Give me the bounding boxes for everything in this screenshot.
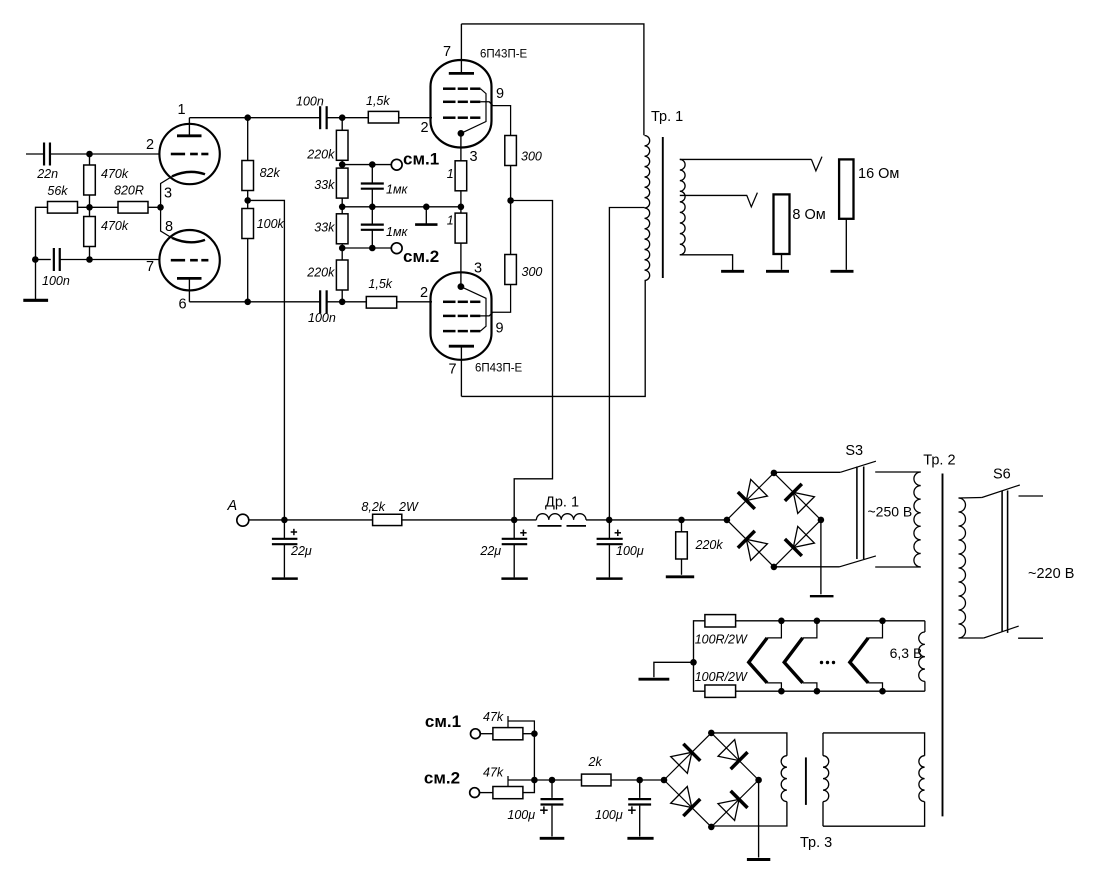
svg-text:100μ: 100μ (595, 808, 623, 822)
ground heater ground (639, 678, 670, 681)
label 33k upper (314, 178, 335, 192)
switch S6 blade bottom (984, 626, 1019, 638)
svg-text:100μ: 100μ (616, 544, 644, 558)
label 100u main (616, 544, 644, 558)
label pin 7 V3 (449, 362, 457, 378)
ground input ground (23, 299, 48, 302)
wire 22u2 top lead (513, 520, 515, 539)
switch S6 blade top (982, 485, 1020, 498)
wire sec common (680, 255, 733, 270)
ground 100u ground (596, 577, 622, 580)
node cm1 out node (531, 730, 538, 737)
label 100n top (296, 95, 324, 109)
svg-text:82k: 82k (260, 166, 281, 180)
svg-text:2: 2 (421, 120, 429, 136)
resistor R 8 Ohm speaker (774, 194, 790, 254)
Tp1 core (662, 137, 664, 278)
label S6 (993, 467, 1011, 483)
label cm.1 (403, 150, 439, 169)
switch S3 blade bottom (840, 556, 876, 567)
wire feedback to grid2 (60, 259, 160, 261)
node cm1 node (339, 161, 346, 168)
resistor R 47k pot upper (493, 728, 523, 740)
svg-text:100n: 100n (42, 274, 70, 288)
wire 22u2 bottom lead (513, 544, 515, 577)
label pin 8 (165, 219, 173, 235)
wire bottom plate rail (461, 281, 645, 396)
ground bias cap2 ground (627, 837, 653, 840)
pentode V2 6P43P-E upper (431, 60, 492, 148)
wire 82k bottom (247, 191, 249, 209)
wire heater lead bottom 2 (803, 683, 817, 691)
label S3 (845, 443, 863, 459)
Tp2 heater winding (919, 621, 925, 691)
svg-text:S3: S3 (845, 443, 863, 459)
wire heater top rail (736, 620, 925, 622)
ground 220k ground (666, 575, 694, 578)
label 16 Om (858, 166, 899, 182)
label 8,2k (361, 500, 385, 514)
capacitor C 100u main (597, 530, 623, 545)
diode D8 bias lower-right (711, 780, 758, 827)
wire 220k bleeder top (681, 520, 683, 532)
label 33k lower (314, 221, 335, 235)
tap arrow 16 (811, 157, 822, 171)
node bias bridge bottom (708, 824, 715, 831)
label 100n fb (42, 274, 70, 288)
wire bias bridge gnd (758, 780, 760, 858)
node heater gnd node (690, 659, 697, 666)
label 220k lower (306, 266, 335, 280)
resistor R 2k (582, 774, 612, 786)
node bias row node1 (531, 777, 538, 784)
wire 470k lower top lead (89, 207, 91, 216)
plate V2 (449, 72, 474, 75)
resistor R 470k lower (84, 217, 96, 247)
wire cap1mk2 top lead (371, 207, 373, 225)
wire cathode1 lead (161, 177, 172, 208)
svg-text:Тр. 2: Тр. 2 (923, 453, 955, 469)
Tp3 secondary winding (781, 756, 787, 802)
label 820R (114, 184, 144, 198)
label 300 lower (522, 265, 543, 279)
ground bias cap1 ground (540, 837, 565, 840)
wire 100u top lead (608, 520, 610, 539)
switch S3 blade top (840, 461, 876, 472)
terminal cm.1 (391, 159, 402, 170)
terminal cm.2 input (470, 788, 480, 798)
resistor R 33k lower (336, 214, 348, 244)
wire sec 16ohm tap (680, 158, 812, 160)
svg-text:8: 8 (165, 219, 173, 235)
svg-text:100μ: 100μ (507, 808, 535, 822)
svg-text:22μ: 22μ (479, 544, 501, 558)
wire heater lead bottom 3 (868, 683, 882, 691)
wire cm1 to cm2 row (533, 734, 535, 780)
label V3 name (475, 363, 523, 375)
wire primary top (959, 497, 982, 500)
resistor R 8.2k (373, 514, 402, 525)
Tp2 bias winding (919, 756, 925, 802)
svg-text:33k: 33k (314, 178, 335, 192)
node 100k bottom node (244, 299, 251, 306)
wire cm1 term to pot (480, 733, 493, 735)
node heater node top 3 (879, 618, 886, 625)
wire mid cathode row (342, 206, 461, 208)
label 470k lower (101, 219, 129, 233)
svg-text:47k: 47k (483, 710, 504, 724)
beam plate hook V3 (463, 287, 486, 331)
svg-text:2: 2 (420, 285, 428, 301)
label 47k lower (483, 766, 504, 780)
svg-text:см.2: см.2 (403, 247, 439, 266)
node divider node (86, 204, 93, 211)
ground 8ohm ground (766, 270, 789, 273)
diode D1 main upper-left (727, 473, 774, 520)
label Tp. 3 (800, 835, 832, 851)
wire pot2 out (523, 780, 535, 793)
svg-text:100R/2W: 100R/2W (695, 633, 748, 647)
pentode V3 6P43P-E lower (431, 272, 492, 360)
node bias bridge right (755, 777, 762, 784)
svg-text:1: 1 (178, 102, 186, 118)
ground mid ground (415, 223, 437, 226)
svg-text:9: 9 (496, 321, 504, 337)
svg-text:1: 1 (447, 167, 454, 181)
Tp2 primary winding (959, 498, 966, 638)
node heater node bottom 3 (879, 688, 886, 695)
label pin 2 (146, 137, 154, 153)
wire S6 top fixed (1019, 495, 1044, 497)
label 22u first (290, 544, 312, 558)
wire top coupling row (189, 117, 320, 119)
label V2 name (480, 49, 528, 61)
svg-text:6: 6 (179, 297, 187, 313)
ground 22u1 ground (272, 577, 298, 580)
wire Tp3 prim top (823, 733, 925, 756)
wire bias cap1 top lead (551, 780, 553, 798)
wire 300 lower bottom (480, 285, 510, 316)
label pin 1 (178, 102, 186, 118)
node bias chain top (339, 114, 346, 121)
capacitor C 1mk upper (361, 184, 384, 189)
svg-text:100R/2W: 100R/2W (695, 670, 748, 684)
wire Tp3 prim left top (822, 733, 824, 756)
wire plate1 lead (188, 118, 190, 136)
node cathode row right (458, 204, 465, 211)
label 6.3V (890, 645, 923, 661)
wire 8ohm gnd lead (781, 254, 783, 270)
wire B+ riser (248, 200, 285, 520)
node 82k top node (244, 114, 251, 121)
svg-text:56k: 56k (47, 184, 68, 198)
wire 16ohm gnd lead (845, 219, 847, 270)
label 1,5k top (366, 94, 390, 108)
node bridge bottom (771, 564, 778, 571)
heater filament 2 (784, 638, 802, 683)
wire 1.5k to grid bottom (397, 301, 432, 303)
label 1 upper (447, 167, 454, 181)
label pin 2 V2 (421, 120, 429, 136)
wire S6 bottom fixed (1018, 637, 1043, 639)
capacitor C 1mk lower (361, 225, 384, 230)
svg-text:см.2: см.2 (424, 769, 460, 788)
heater filament 1 (749, 638, 767, 683)
connector S3 (857, 467, 864, 560)
node cm2 cap node (369, 245, 376, 252)
svg-text:2W: 2W (398, 500, 419, 514)
label Tp. 1 (651, 109, 683, 125)
svg-text:22n: 22n (36, 167, 58, 181)
svg-text:100k: 100k (257, 217, 285, 231)
wire 56k to 820R (78, 206, 119, 208)
node mid row left (339, 204, 346, 211)
wire heater lead top 2 (803, 621, 817, 638)
wire plate2 lead (188, 278, 190, 301)
wire 100k bottom lead (247, 239, 249, 302)
wire bottom coupling row (189, 301, 320, 303)
wire screen feed (511, 201, 553, 520)
label 100u bias1 (507, 808, 535, 822)
wire input to grid (50, 153, 160, 155)
svg-text:1: 1 (447, 214, 454, 228)
svg-text:2k: 2k (588, 755, 603, 769)
label pin 9 V2 (496, 86, 504, 102)
node gnd stub node (423, 204, 430, 211)
label 220k upper (306, 148, 335, 162)
label 82k (260, 166, 281, 180)
resistor R 220k upper (336, 130, 348, 160)
svg-text:6П43П-Е: 6П43П-Е (475, 363, 523, 375)
svg-text:220k: 220k (695, 538, 724, 552)
svg-text:8,2k: 8,2k (361, 500, 385, 514)
svg-text:470k: 470k (101, 219, 129, 233)
label 100n bottom (308, 311, 336, 325)
wire cap to 1.5k bottom (327, 301, 367, 303)
wire bridge bottom to S3 (774, 566, 840, 568)
wire 1ohm junction leads (460, 191, 462, 213)
svg-text:100n: 100n (308, 311, 336, 325)
wire plate V3 lead (460, 346, 462, 396)
label cm.2 (403, 247, 439, 266)
wire S3 to winding top (875, 471, 921, 473)
diode D6 bias upper-right (711, 733, 758, 780)
wire cap1mk top lead (371, 165, 373, 184)
node rail node 220k (678, 517, 685, 524)
wire 100u bottom lead (608, 544, 610, 577)
resistor R 100R/2W upper (705, 615, 736, 627)
resistor R 16 Ohm speaker (839, 159, 853, 218)
label pin 6 (179, 297, 187, 313)
wire 220k top lead (341, 118, 343, 131)
capacitor C 100u bias1 (540, 799, 563, 814)
label 2k (588, 755, 603, 769)
wire mid gnd stub (425, 207, 427, 224)
wire heater lead top 3 (868, 621, 882, 638)
node heater node bottom 2 (814, 688, 821, 695)
node 82k 100k junction (244, 197, 251, 204)
wire 470k upper leads (89, 154, 91, 165)
resistor R 820R (118, 202, 148, 214)
node bias bridge left (661, 777, 668, 784)
svg-text:7: 7 (443, 44, 451, 60)
node bias cap1 node (549, 777, 556, 784)
wire heater left edge (694, 621, 705, 691)
ground bridge ground (810, 595, 834, 597)
wire down to ground (35, 260, 37, 300)
node heater node bottom 1 (778, 688, 785, 695)
svg-text:6,3 В: 6,3 В (890, 645, 923, 661)
svg-text:1мк: 1мк (386, 183, 409, 197)
grids V2 (443, 89, 480, 118)
node cm2 node (339, 245, 346, 252)
wire 220k lower bottom (341, 290, 343, 302)
ground sec common ground (721, 270, 744, 273)
wire bridge top to S3 (774, 471, 840, 473)
label 2W (398, 500, 419, 514)
svg-text:~250 В: ~250 В (868, 504, 913, 520)
wire S3 to winding bottom (875, 566, 921, 568)
resistor R 300 lower (505, 255, 517, 285)
wire 82k top lead (247, 118, 249, 161)
node heater node top 1 (778, 618, 785, 625)
svg-text:7: 7 (449, 362, 457, 378)
ground 22u2 ground (501, 577, 527, 580)
wire rail 8.2k to choke (402, 519, 537, 521)
wire heater gnd wire (654, 662, 694, 677)
cathode V3 (458, 283, 465, 290)
svg-text:А: А (227, 498, 238, 514)
diode D3 main upper-right (774, 473, 821, 520)
node feedback node (32, 256, 39, 263)
label 47k upper (483, 710, 504, 724)
label 100R/2W lower (695, 670, 748, 684)
wire bias row b (611, 779, 664, 781)
svg-text:16 Ом: 16 Ом (858, 166, 899, 182)
wire bias row a (534, 779, 581, 781)
wire 470k upper bottom lead (89, 195, 91, 207)
node bridge left (724, 517, 731, 524)
wire 220k to 33k (341, 160, 343, 168)
choke Dr.1 (536, 514, 586, 526)
resistor R 1ohm lower (455, 213, 467, 243)
svg-text:3: 3 (164, 186, 172, 202)
wire 56k left (36, 207, 48, 259)
ellipsis dots (820, 661, 835, 664)
connector S6 (1002, 491, 1008, 633)
label 100R/2W upper (695, 633, 748, 647)
svg-text:8 Ом: 8 Ом (792, 207, 825, 223)
label 470k upper (101, 167, 129, 181)
tap arrow 8 (747, 193, 758, 207)
wire primary bottom (959, 637, 984, 639)
label 100u bias2 (595, 808, 623, 822)
label Tp. 2 (923, 453, 955, 469)
wire 820R to cathode junction (148, 206, 161, 208)
resistor R 82k (242, 161, 254, 191)
Tp2 core (942, 474, 944, 817)
svg-text:Тр. 1: Тр. 1 (651, 109, 683, 125)
wire Tp3 sec bottom (711, 802, 787, 826)
terminal cm.1 input (471, 729, 481, 739)
node bias bridge top (708, 730, 715, 737)
svg-text:47k: 47k (483, 766, 504, 780)
wire cap to 1.5k top (327, 117, 369, 119)
wire pot1 out (523, 733, 535, 735)
node bridge top (771, 470, 778, 477)
label 8 Om (792, 207, 825, 223)
wire heater lead bottom 1 (767, 683, 781, 691)
resistor R 100R/2W lower (705, 685, 736, 697)
wire 220k bleeder bottom (681, 559, 683, 575)
wire 300 upper bottom (510, 166, 512, 255)
wire cap1mk bottom lead (371, 189, 373, 207)
wire cathode V2 lead (460, 133, 462, 160)
wire plate V2 lead (460, 24, 462, 74)
diode D7 bias lower-left (664, 780, 711, 827)
node screen node (507, 197, 514, 204)
diode D2 main lower-left (727, 520, 774, 567)
Tp3 primary winding (823, 756, 829, 802)
svg-text:6П43П-Е: 6П43П-Е (480, 49, 528, 61)
label pin 3 V3 (474, 261, 482, 277)
node rail node B+ (511, 517, 518, 524)
node rail node 22u1 (281, 517, 288, 524)
svg-text:см.1: см.1 (403, 150, 439, 169)
resistor R 1.5k bottom (366, 297, 396, 309)
resistor R 100k (242, 209, 254, 239)
label Dr. 1 (545, 495, 579, 511)
label 56k (47, 184, 68, 198)
svg-text:1мк: 1мк (386, 225, 409, 239)
svg-text:Тр. 3: Тр. 3 (800, 835, 832, 851)
label 22n (36, 167, 58, 181)
wire bias cap1 bottom lead (551, 806, 553, 837)
resistor R 470k upper (84, 165, 96, 195)
beam plate hook V2 (463, 89, 486, 133)
diode D4 main lower-right (774, 520, 821, 567)
node fb node (86, 256, 93, 263)
wire cm1 wire (342, 164, 391, 166)
svg-text:22μ: 22μ (290, 544, 312, 558)
capacitor C 22u first (272, 529, 298, 544)
triode V1b (159, 230, 219, 290)
capacitor C 22n input (44, 143, 50, 166)
node input node (86, 151, 93, 158)
label pin 3 V2 (470, 149, 478, 165)
ground 16ohm ground (831, 270, 854, 273)
svg-text:1,5k: 1,5k (366, 94, 390, 108)
Tp3 core (805, 757, 807, 805)
wire 1ohm to cathode V3 (460, 243, 462, 287)
wire heater bottom rail (736, 690, 925, 692)
Tp2 HV winding (914, 472, 921, 567)
node rail node 100u (606, 517, 613, 524)
wire bridge minus gnd (820, 520, 822, 594)
resistor R 56k (48, 202, 78, 214)
grids V3 (443, 302, 480, 331)
label 1,5k bottom (368, 277, 392, 291)
node bridge right (818, 517, 825, 524)
label 22u second (479, 544, 501, 558)
svg-text:3: 3 (474, 261, 482, 277)
svg-text:9: 9 (496, 86, 504, 102)
terminal A (237, 514, 249, 526)
wire cathode2 lead (161, 207, 172, 238)
wire Tp3 sec top (711, 733, 787, 756)
node 1mk mid node (369, 204, 376, 211)
wire cm2 wire (342, 247, 391, 249)
